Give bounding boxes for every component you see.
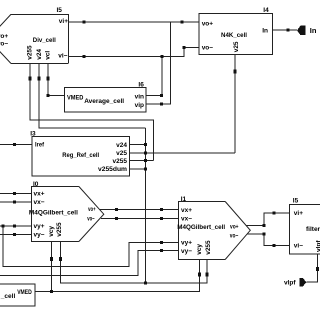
Div_cell I5 body [0, 14, 69, 64]
wire vy+ loop to I1 [3, 226, 179, 267]
vlpf port arrow [299, 278, 306, 286]
svg-text:v255: v255 [56, 222, 63, 237]
dot vy+ T at left [1, 224, 4, 227]
dots filter input wires [272, 211, 275, 214]
svg-text:N4K_cell: N4K_cell [221, 32, 247, 39]
svg-text:vx+: vx+ [34, 191, 45, 198]
wire vcl to VMED pin of Average [48, 63, 65, 96]
dot filter bottom pin [316, 267, 319, 271]
svg-text:vi−: vi− [58, 52, 67, 59]
wire Iref [0, 143, 32, 145]
svg-text:vo−: vo− [0, 40, 8, 47]
svg-text:M4QGilbert_cell: M4QGilbert_cell [29, 210, 78, 217]
svg-text:vx−: vx− [34, 199, 45, 206]
svg-text:vi+: vi+ [294, 210, 303, 217]
wire v25 vertical to N4K [234, 55, 236, 153]
vertical v255dum rail [145, 128, 147, 283]
dot vin joint [160, 94, 163, 97]
Reg_Ref_cell I3 body [32, 137, 129, 177]
wire vy- loop to I1 [0, 251, 179, 276]
wire vo+ : Div vi+ to N4K vo+ [68, 21, 199, 23]
svg-text:VMED: VMED [17, 289, 32, 296]
svg-text:v255: v255 [27, 45, 34, 60]
svg-text:vy+: vy+ [181, 240, 192, 247]
svg-text:Div_cell: Div_cell [33, 37, 56, 44]
filter cell I5 body [289, 204, 320, 254]
svg-text:v255dum: v255dum [98, 166, 127, 173]
svg-text:vlpf: vlpf [284, 280, 296, 287]
dots I1 out corners [262, 224, 265, 227]
M4QGilbert_cell I1 body [179, 202, 251, 260]
svg-text:_cell: _cell [0, 293, 15, 300]
wire I0 vcy down [51, 242, 53, 292]
svg-text:vlpf: vlpf [316, 240, 320, 252]
svg-text:I5: I5 [293, 198, 299, 205]
dot vcl corner [46, 94, 49, 97]
svg-text:vcy: vcy [48, 226, 55, 237]
svg-text:v25: v25 [116, 150, 127, 157]
N4K_cell I4 body [199, 14, 273, 55]
svg-text:In: In [310, 26, 317, 35]
svg-text:vcl: vcl [45, 51, 52, 60]
svg-text:vo−: vo− [230, 232, 239, 239]
svg-text:Iref: Iref [35, 141, 45, 148]
wire vip drop [146, 22, 170, 104]
svg-text:I1: I1 [181, 196, 187, 203]
wire I0 vy+ [0, 225, 31, 227]
svg-text:I5: I5 [57, 7, 63, 14]
dots I0 bottom pins [50, 257, 53, 261]
svg-text:vin: vin [135, 94, 144, 101]
svg-text:vip: vip [135, 102, 144, 109]
Reg v25 wire [129, 152, 235, 154]
wire I0 vx+ [0, 193, 31, 195]
dots I0 vx inputs [13, 192, 16, 195]
svg-text:v24: v24 [36, 49, 43, 60]
svg-text:vx−: vx− [181, 216, 192, 223]
svg-text:vi+: vi+ [59, 18, 68, 25]
svg-text:vo−: vo− [87, 215, 95, 222]
dot rail bottom on v255 line [144, 282, 147, 285]
dot vi- wire a [83, 55, 86, 58]
Average_cell I6 body [65, 88, 146, 112]
dot v25 vertical [234, 69, 237, 73]
wire vo- I0 to vx- I1 [101, 217, 179, 219]
svg-text:v255: v255 [113, 158, 128, 165]
svg-text:vy+: vy+ [34, 223, 45, 230]
wire I1 vo+ to filter vi+ [246, 213, 289, 226]
wire I0 vy- [0, 233, 31, 235]
svg-text:v24: v24 [116, 142, 127, 149]
wire vi- : Div vi- to N4K vo- [68, 47, 199, 56]
wire vo+ I0 to vx+ I1 [100, 208, 179, 210]
svg-text:vx+: vx+ [181, 207, 192, 214]
dot vi- T [161, 55, 164, 58]
svg-text:vo−: vo− [202, 45, 214, 52]
svg-text:I0: I0 [33, 181, 39, 188]
svg-text:I6: I6 [138, 82, 144, 89]
dots I1 input joints [160, 208, 163, 211]
wire filter bottom pin to vlpf [306, 254, 317, 282]
svg-text:v25: v25 [233, 41, 240, 52]
wire In : N4K In to port [273, 29, 298, 31]
svg-text:I3: I3 [30, 131, 36, 138]
dot VMED junction [50, 290, 53, 293]
dots I1 bottom pins [198, 273, 201, 277]
cell name labels [29, 32, 320, 233]
svg-text:In: In [262, 28, 268, 35]
dots I0 vy inputs [13, 224, 16, 227]
wire v24 Div to Reg [39, 63, 146, 128]
svg-text:vy−: vy− [181, 248, 192, 255]
In port arrow [297, 26, 306, 36]
svg-text:vy−: vy− [34, 232, 45, 239]
svg-text:I4: I4 [263, 7, 269, 14]
Reg v255dum stub [129, 168, 147, 170]
VMED cell body [0, 284, 35, 306]
dot Iref [13, 143, 16, 146]
svg-text:Average_cell: Average_cell [84, 98, 124, 105]
svg-text:VMED: VMED [67, 95, 84, 102]
svg-text:vo+: vo+ [88, 206, 96, 213]
svg-text:vo+: vo+ [0, 33, 8, 40]
dot vo+ wire b [180, 21, 183, 24]
instance labels [30, 7, 298, 205]
dot In wire [287, 29, 290, 32]
Reg v255 stub [129, 160, 153, 162]
svg-text:vo+: vo+ [202, 20, 214, 27]
rotated pin labels [27, 41, 320, 255]
dot vip joint [160, 102, 163, 105]
svg-text:Reg_Ref_cell: Reg_Ref_cell [62, 152, 99, 159]
svg-text:filter_cell: filter_cell [306, 226, 320, 233]
svg-text:vo+: vo+ [230, 224, 239, 231]
wire I0 vx- [0, 201, 31, 203]
wire I1 vo- to filter vi- [247, 234, 289, 245]
wire I0 v255 to I1 v255 [61, 242, 208, 283]
M4QGilbert_cell I0 body [32, 187, 104, 242]
svg-text:vcy: vcy [196, 244, 203, 255]
wire v255 Div to Reg [30, 63, 154, 161]
dots Reg outputs rail [144, 143, 147, 146]
svg-text:v255: v255 [205, 240, 212, 255]
wire vin drop [146, 57, 162, 96]
wire VMED to I1 vcy [35, 259, 199, 292]
svg-text:M4QGilbert_cell: M4QGilbert_cell [177, 224, 225, 231]
dots vo+/vo- I0 joints [115, 208, 118, 211]
Reg v24 stub [129, 144, 147, 146]
dot vo- corner [183, 46, 186, 49]
svg-text:vi−: vi− [294, 243, 303, 250]
dot vo+ wire a [83, 21, 86, 24]
dots Div bottom pins [29, 77, 32, 81]
